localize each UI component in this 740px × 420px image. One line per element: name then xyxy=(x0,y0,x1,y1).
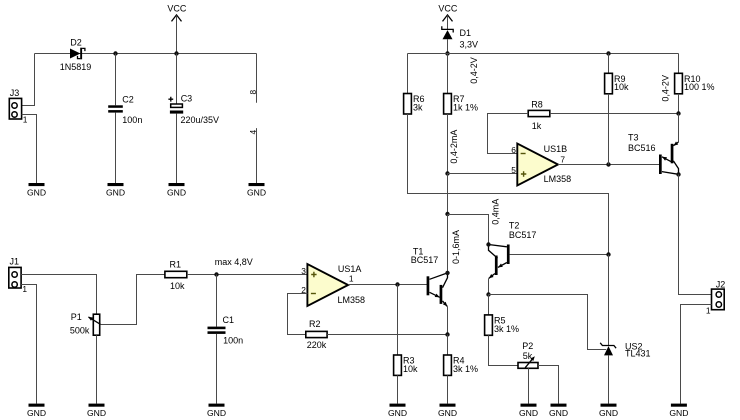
svg-text:GND: GND xyxy=(669,408,688,418)
power VCC (C3 rail) xyxy=(167,3,187,53)
svg-text:T3: T3 xyxy=(628,133,639,143)
svg-text:max 4,8V: max 4,8V xyxy=(215,257,253,267)
connector J3 xyxy=(9,88,21,119)
power VCC (D1) xyxy=(438,3,458,29)
svg-text:3,3V: 3,3V xyxy=(460,39,479,49)
transistor T1 BC517 xyxy=(411,246,448,306)
resistor R6 3k xyxy=(404,94,425,115)
wire R10 bottom xyxy=(678,94,680,114)
ground (R3) xyxy=(388,404,407,418)
svg-text:J3: J3 xyxy=(10,88,20,98)
wire R4 top xyxy=(447,335,449,356)
ground (P2 wiper) xyxy=(519,404,538,418)
potentiometer P1 500k xyxy=(70,312,101,403)
svg-text:0,4-2V: 0,4-2V xyxy=(469,57,479,84)
svg-text:GND: GND xyxy=(247,187,266,197)
wire R1 to US1A pin3 xyxy=(187,274,308,276)
resistor R2 220k xyxy=(306,319,327,350)
junction T2 base / R6 / US2 xyxy=(606,252,610,256)
wire T2 collector branch xyxy=(448,215,489,245)
svg-text:3k 1%: 3k 1% xyxy=(453,364,478,374)
svg-text:BC517: BC517 xyxy=(509,230,537,240)
wire pin5 node down xyxy=(447,174,449,215)
wire US2 ref xyxy=(489,295,607,350)
ground (P1) xyxy=(87,404,106,418)
svg-text:6: 6 xyxy=(511,145,516,155)
svg-text:100n: 100n xyxy=(223,335,243,345)
wire T3 collector to J2 xyxy=(679,174,712,294)
junction C2 / rail xyxy=(113,51,117,55)
svg-text:BC517: BC517 xyxy=(411,255,439,265)
svg-text:LM358: LM358 xyxy=(544,174,572,184)
connector J2 xyxy=(712,280,726,310)
svg-text:GND: GND xyxy=(519,408,538,418)
diode D2 1N5819 xyxy=(60,38,92,72)
wire T2 emitter to R5 xyxy=(488,295,490,315)
wire J1 pin2 to ground xyxy=(21,285,36,404)
svg-text:10k: 10k xyxy=(403,364,418,374)
svg-text:C2: C2 xyxy=(122,94,134,104)
ground (C1) xyxy=(207,404,226,418)
resistor R8 1k xyxy=(528,100,550,131)
wire R6 top xyxy=(407,54,409,94)
wire R2 to T1 emitter node xyxy=(327,334,447,336)
resistor R1 10k xyxy=(165,259,187,291)
wire J1 pin1 to P1 xyxy=(21,275,96,315)
svg-text:TL431: TL431 xyxy=(625,348,651,358)
svg-text:P1: P1 xyxy=(71,312,82,322)
op-amp US1B LM358 xyxy=(517,144,571,186)
ground (C2) xyxy=(106,183,125,197)
ground (J3) xyxy=(27,183,46,197)
svg-text:1: 1 xyxy=(23,114,28,124)
wire R6 to T2 base node xyxy=(408,114,609,255)
svg-text:GND: GND xyxy=(87,408,106,418)
svg-text:0,4-2mA: 0,4-2mA xyxy=(449,130,459,164)
svg-text:GND: GND xyxy=(207,408,226,418)
shunt regulator US2 TL431 xyxy=(600,341,650,403)
wire J3 pin1 to VCC rail xyxy=(22,54,35,106)
wire US1B output xyxy=(558,164,659,166)
svg-text:BC516: BC516 xyxy=(628,143,656,153)
svg-text:7: 7 xyxy=(560,154,565,164)
wire R3 top xyxy=(397,285,399,356)
svg-text:220u/35V: 220u/35V xyxy=(181,115,220,125)
svg-text:GND: GND xyxy=(27,187,46,197)
svg-text:T2: T2 xyxy=(509,220,520,230)
junction output / R9 xyxy=(606,162,610,166)
transistor T2 BC517 xyxy=(489,220,537,278)
junction output / R3 xyxy=(395,282,399,286)
wire P2 right to ground xyxy=(538,366,559,404)
svg-text:0,4-2V: 0,4-2V xyxy=(660,75,670,102)
junction T1 emitter / R2 / R4 xyxy=(445,332,449,336)
svg-text:5k: 5k xyxy=(523,351,533,361)
junction R1 / C1 xyxy=(214,272,218,276)
wire T2 emitter down xyxy=(488,278,490,294)
wire R5 to P2 xyxy=(489,335,519,365)
ground (P2 right) xyxy=(549,404,568,418)
wire US1 pin 4 GND stub xyxy=(256,128,258,183)
svg-text:C1: C1 xyxy=(223,315,235,325)
wire R8 to current sense node xyxy=(550,113,679,115)
junction T1 collectors xyxy=(445,271,449,275)
wire US1A output xyxy=(348,284,427,286)
svg-text:0,4mA: 0,4mA xyxy=(490,199,500,225)
svg-text:R8: R8 xyxy=(531,100,543,110)
wire T1 emitter down xyxy=(447,306,449,334)
svg-text:1: 1 xyxy=(706,305,711,315)
connector J1 xyxy=(9,257,21,288)
svg-text:R2: R2 xyxy=(309,319,321,329)
svg-text:0-1,6mA: 0-1,6mA xyxy=(451,230,461,264)
svg-text:J1: J1 xyxy=(10,257,20,267)
junction T2 collector branch xyxy=(445,212,449,216)
svg-text:100 1%: 100 1% xyxy=(684,82,715,92)
svg-text:3k: 3k xyxy=(413,102,423,112)
svg-text:P2: P2 xyxy=(522,341,533,351)
svg-text:1k: 1k xyxy=(532,121,542,131)
svg-text:GND: GND xyxy=(599,408,618,418)
junction C3 / VCC xyxy=(174,51,178,55)
resistor R3 10k xyxy=(394,355,418,404)
wire J2 pin1 to ground xyxy=(681,305,712,404)
capacitor C3 220u/35V polarized xyxy=(168,54,219,184)
wire VCC rail top-left xyxy=(35,53,257,55)
svg-text:US1B: US1B xyxy=(544,144,568,154)
wire US1 pin 8 VCC stub xyxy=(256,54,258,103)
wire T2 base to US2 node xyxy=(510,254,609,256)
wire P1 wiper to R1 xyxy=(101,275,165,325)
ground (J1) xyxy=(27,404,46,418)
wire R9 bottom xyxy=(608,94,610,165)
svg-text:VCC: VCC xyxy=(167,3,187,13)
svg-text:1k 1%: 1k 1% xyxy=(453,102,478,112)
svg-text:10k: 10k xyxy=(614,82,629,92)
svg-text:220k: 220k xyxy=(307,340,327,350)
svg-text:LM358: LM358 xyxy=(338,295,366,305)
wire R7 bottom xyxy=(447,114,449,174)
svg-text:VCC: VCC xyxy=(438,3,458,13)
transistor T3 BC516 xyxy=(628,133,679,175)
wire T3 emitter xyxy=(678,114,680,143)
svg-text:8: 8 xyxy=(248,89,258,94)
svg-text:C3: C3 xyxy=(181,93,193,103)
wire VCC rail right section xyxy=(408,53,679,55)
resistor R10 100 1% xyxy=(675,73,715,94)
ground (R4) xyxy=(438,404,457,418)
svg-text:5: 5 xyxy=(511,165,516,175)
junction T2 collector xyxy=(486,242,490,246)
junction D1 / VCC rail xyxy=(445,51,449,55)
resistor R7 1k 1% xyxy=(444,94,478,115)
svg-text:D2: D2 xyxy=(70,38,82,48)
svg-text:GND: GND xyxy=(167,187,186,197)
wire P2 wiper to ground xyxy=(528,368,530,403)
svg-text:3k 1%: 3k 1% xyxy=(494,324,519,334)
wire US1A pin2 feedback xyxy=(288,294,308,335)
ground (J2) xyxy=(669,404,688,418)
ground (US1 pin 4) xyxy=(247,183,266,197)
junction R10 / R8 / T3 emitter xyxy=(676,111,680,115)
svg-text:1N5819: 1N5819 xyxy=(60,62,92,72)
svg-text:100n: 100n xyxy=(122,115,142,125)
svg-text:R1: R1 xyxy=(170,259,182,269)
wire US1B feedback pin 6 xyxy=(488,114,529,154)
svg-text:3: 3 xyxy=(301,266,306,276)
resistor R4 3k 1% xyxy=(444,355,478,404)
wire US2 cathode xyxy=(608,255,610,346)
wire R7 top xyxy=(447,54,449,94)
svg-text:GND: GND xyxy=(106,187,125,197)
junction T2 emitter / R5 / US2 ref xyxy=(486,292,490,296)
svg-text:1: 1 xyxy=(349,273,354,283)
resistor R5 3k 1% xyxy=(485,315,519,335)
svg-text:GND: GND xyxy=(388,408,407,418)
svg-text:GND: GND xyxy=(549,408,568,418)
svg-text:D1: D1 xyxy=(460,28,472,38)
ground (US2) xyxy=(599,404,618,418)
capacitor C1 100n xyxy=(208,275,244,404)
svg-text:GND: GND xyxy=(438,408,457,418)
wire R9 top xyxy=(608,54,610,74)
svg-text:10k: 10k xyxy=(170,281,185,291)
wire J3 pin2 to ground xyxy=(22,115,37,184)
svg-text:GND: GND xyxy=(27,408,46,418)
junction R7 / US1B pin5 xyxy=(445,171,449,175)
junction rail / R9 xyxy=(606,51,610,55)
capacitor C2 100n xyxy=(108,54,142,184)
svg-text:1: 1 xyxy=(22,284,27,294)
svg-text:500k: 500k xyxy=(70,326,90,336)
potentiometer P2 5k xyxy=(518,341,538,368)
wire R10 top corner xyxy=(678,54,680,74)
zener diode D1 3,3V xyxy=(442,26,478,53)
svg-text:J2: J2 xyxy=(716,280,726,290)
resistor R9 10k xyxy=(605,73,629,94)
svg-text:4: 4 xyxy=(248,130,258,135)
wire T1 collector xyxy=(447,215,449,273)
wire to US1B pin 5 xyxy=(448,173,518,175)
junction T3 collectors xyxy=(676,172,680,176)
ground (C3) xyxy=(167,183,186,197)
op-amp US1A LM358 xyxy=(307,264,365,306)
